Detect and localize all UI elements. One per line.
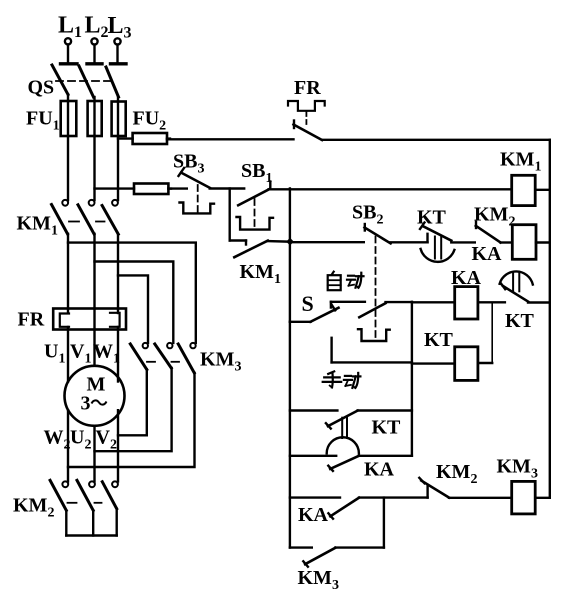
contactor KM3 main contacts — [130, 343, 195, 373]
thermal relay FR NC contact — [288, 101, 325, 140]
label L1 — [58, 13, 82, 42]
timer KT NC delayed contact (top right) — [500, 271, 550, 302]
label M 3~ (motor) — [81, 374, 107, 415]
svg-text:KA: KA — [472, 243, 503, 265]
svg-text:KM3: KM3 — [497, 456, 538, 482]
wire motor bottom leads — [68, 410, 118, 481]
label KT (rung 2 contact) — [417, 207, 447, 229]
coil KT — [412, 347, 478, 381]
motor M 3~ — [65, 366, 125, 426]
svg-text:KA: KA — [451, 267, 482, 289]
wire auto branch to KA coil — [412, 301, 455, 303]
node L3 terminal — [114, 38, 120, 62]
label W1 — [93, 341, 120, 367]
svg-text:FU2: FU2 — [133, 108, 167, 134]
coil KM3 — [512, 481, 550, 514]
svg-text:3: 3 — [81, 393, 91, 415]
label S (selector) — [302, 291, 314, 316]
wire U2 to KM3 pole2 bottom — [95, 368, 172, 451]
svg-text:FU1: FU1 — [26, 108, 60, 134]
svg-text:V1: V1 — [70, 341, 91, 367]
label KM2 (main contacts) — [13, 495, 54, 521]
svg-text:L3: L3 — [108, 13, 132, 42]
svg-text:KT: KT — [424, 329, 454, 351]
label QS — [28, 77, 55, 99]
node L1 terminal — [65, 38, 71, 62]
wire top control rail — [167, 138, 550, 141]
wire left rail lower — [289, 322, 291, 548]
svg-text:KM2: KM2 — [436, 461, 477, 487]
svg-text:KM2: KM2 — [13, 495, 54, 521]
wire vertical auto/manual bus — [411, 302, 413, 456]
contactor KM3 aux contact (rung D) — [290, 548, 384, 567]
pushbutton SB3 (stop, NC) — [168, 168, 214, 213]
label L2 — [85, 13, 109, 42]
wire SB1 to KM1 coil — [269, 188, 512, 190]
svg-text:KA: KA — [364, 459, 395, 481]
relay KA NO contact (rung C) — [290, 498, 428, 519]
wire V2 to KM3 pole1 bottom — [118, 370, 147, 436]
label KM1 (aux contact) — [240, 261, 281, 287]
label FR (heater) — [18, 309, 45, 331]
fuse FU2 upper — [118, 133, 170, 144]
svg-text:KM1: KM1 — [17, 213, 58, 239]
svg-text:SB3: SB3 — [173, 151, 204, 177]
wire W2 to KM3 pole3 bottom — [68, 373, 195, 467]
label W2 — [44, 427, 71, 453]
pushbutton SB1 (start, NO) — [237, 182, 274, 230]
label zidong (auto) — [328, 272, 364, 291]
label KM1 (main contacts) — [17, 213, 58, 239]
label KA (rung C contact) — [298, 504, 329, 526]
svg-text:L1: L1 — [58, 13, 82, 42]
svg-text:W2: W2 — [44, 427, 71, 453]
label V2 — [96, 427, 117, 453]
svg-text:KT: KT — [417, 207, 447, 229]
svg-text:S: S — [302, 291, 314, 316]
label V1 — [70, 341, 91, 367]
wire rung C to rung D connector — [383, 498, 385, 548]
label KT (NC delayed contact) — [505, 310, 535, 332]
svg-text:L2: L2 — [85, 13, 109, 42]
coil KM2 — [512, 225, 550, 260]
wire KM1 outputs down to FR heater — [68, 234, 118, 309]
thermal relay FR heater element — [53, 309, 126, 330]
svg-text:QS: QS — [28, 77, 55, 99]
svg-text:KT: KT — [372, 417, 402, 439]
label L3 — [108, 13, 132, 42]
svg-text:V2: V2 — [96, 427, 117, 453]
node junction A — [286, 189, 294, 322]
label KT (rung A contact) — [372, 417, 402, 439]
fuse FU2 lower — [95, 184, 172, 195]
wire branch phase1 to KM3 pole3 — [68, 243, 196, 343]
contactor KM2 NC interlock contact — [419, 478, 511, 498]
label KM3 (aux contact rung D) — [298, 567, 339, 593]
svg-text:U2: U2 — [70, 427, 91, 453]
contactor KM1 aux contact (self holding) — [230, 189, 287, 258]
svg-text:KT: KT — [505, 310, 535, 332]
label KT (coil) — [424, 329, 454, 351]
label KM3 (coil) — [497, 456, 538, 482]
relay KA NO contact (rung B) — [290, 456, 412, 471]
relay KA NO contact (rung 2) — [476, 222, 513, 243]
svg-text:FR: FR — [18, 309, 45, 331]
label KM1 (coil) — [500, 149, 541, 175]
svg-text:SB1: SB1 — [241, 160, 272, 186]
label SB3 — [173, 151, 204, 177]
coil KM1 — [512, 175, 550, 205]
svg-text:SB2: SB2 — [352, 202, 383, 228]
pushbutton SB2 NC contact — [365, 224, 428, 243]
svg-text:KM1: KM1 — [240, 261, 281, 287]
svg-text:KM3: KM3 — [298, 567, 339, 593]
contactor KM1 main contacts — [52, 200, 119, 234]
label shoudong (manual) — [323, 371, 361, 388]
contactor KM2 main contacts — [50, 480, 118, 510]
wire KM2 star point bus — [66, 509, 116, 536]
wire node to KT coil rung — [478, 302, 492, 363]
label FU2 — [133, 108, 167, 134]
node L2 terminal — [91, 38, 97, 62]
label KA (rung B contact) — [364, 459, 395, 481]
label U1 — [44, 341, 65, 367]
wire SB3 to SB1 — [210, 187, 245, 189]
label FU1 — [26, 108, 60, 134]
coil KA — [455, 287, 505, 319]
wire branch phase3 to KM3 pole1 — [118, 275, 148, 343]
switch QS — [52, 64, 126, 102]
svg-text:KM2: KM2 — [474, 204, 515, 230]
label KA (coil) — [451, 267, 482, 289]
svg-text:U1: U1 — [44, 341, 65, 367]
label SB1 — [241, 160, 272, 186]
svg-text:KM1: KM1 — [500, 149, 541, 175]
pushbutton SB2 NO contact (auto path) — [358, 237, 412, 342]
wire branch phase2 to KM3 pole2 — [95, 262, 174, 343]
switch S selector — [290, 302, 365, 322]
label KA (rung 2 contact) — [472, 243, 503, 265]
label KM3 (main contacts) — [200, 349, 241, 375]
label U2 — [70, 427, 91, 453]
label SB2 — [352, 202, 383, 228]
label KM2 (NC interlock) — [436, 461, 477, 487]
svg-text:FR: FR — [294, 77, 321, 99]
svg-text:W1: W1 — [93, 341, 120, 367]
wire phase risers to KM1 — [68, 136, 118, 200]
svg-text:KM3: KM3 — [200, 349, 241, 375]
wire FR to motor — [68, 330, 118, 382]
label KM2 (coil) — [474, 204, 515, 230]
label FR (contact) — [294, 77, 321, 99]
fuse FU1 (3 poles) — [61, 101, 126, 136]
timer KT delayed contact (on rung 2) — [420, 223, 475, 262]
svg-text:KA: KA — [298, 504, 329, 526]
wire right rail — [549, 140, 551, 498]
wire junction to SB2 — [290, 241, 364, 243]
timer KT NO delayed contact (rung A) — [290, 411, 412, 454]
switch S manual position contact — [332, 338, 412, 363]
